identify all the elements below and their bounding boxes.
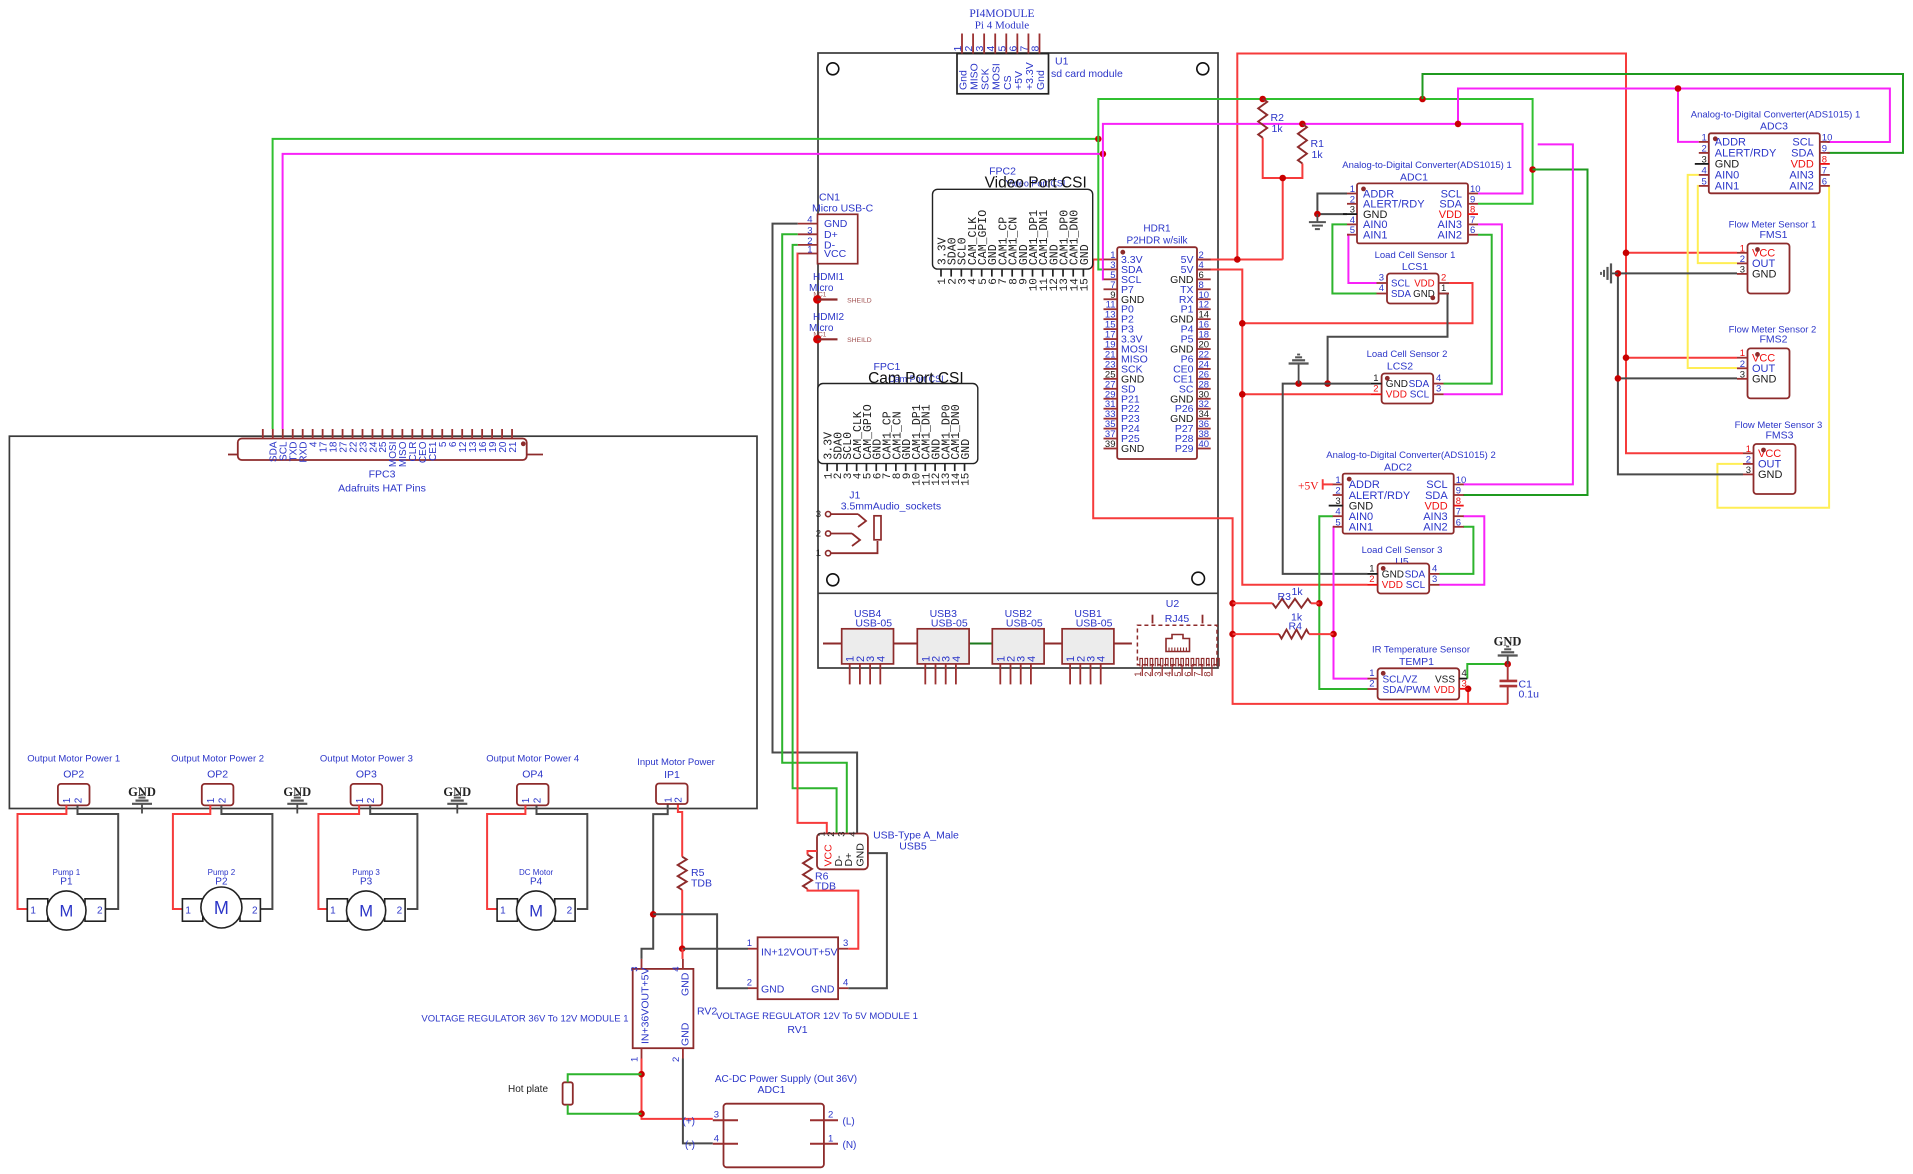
svg-text:sd card module: sd card module xyxy=(1051,68,1123,80)
junction 5V rail xyxy=(1234,256,1241,263)
header OP2 Output Motor Power 2 xyxy=(171,754,264,806)
svg-text:LCS2: LCS2 xyxy=(1387,361,1413,373)
svg-text:GND: GND xyxy=(1752,269,1777,281)
svg-text:2: 2 xyxy=(1702,143,1707,154)
svg-text:2: 2 xyxy=(217,797,228,803)
junction ADC1 ground xyxy=(1314,211,1321,218)
svg-text:4: 4 xyxy=(671,967,682,972)
junction R2 top on SDA rail xyxy=(1259,96,1266,103)
svg-text:8: 8 xyxy=(1456,496,1461,507)
svg-text:HDMI1: HDMI1 xyxy=(813,272,845,283)
wire OP1 pin2 to pump1 motor xyxy=(78,805,119,909)
wire ADC2 AIN1 to TEMP1 SCL/VZ xyxy=(1333,527,1368,679)
svg-text:2: 2 xyxy=(1335,486,1340,497)
wire ADC2 AIN2 to U5 SDA xyxy=(1440,527,1474,574)
wire hot plate bottom to 36V return xyxy=(568,1105,642,1114)
svg-text:4: 4 xyxy=(843,978,848,989)
junction FMS2 VCC xyxy=(1623,354,1630,361)
wire RV2 pin2 to AC-DC (-) xyxy=(683,1059,713,1144)
svg-text:3: 3 xyxy=(1436,384,1441,395)
ground symbol under ADC1 xyxy=(1316,214,1318,222)
junction ground symbol tap xyxy=(1295,380,1302,387)
svg-text:(+): (+) xyxy=(683,1117,696,1128)
board USB/ethernet strip divider xyxy=(818,592,1218,594)
svg-text:2: 2 xyxy=(97,906,103,917)
wire LCS1 GND loop to LCS2 GND xyxy=(1328,294,1448,384)
svg-text:VDD: VDD xyxy=(1382,580,1403,591)
wire ADC2 AIN3 to U5 SCL xyxy=(1440,516,1485,585)
svg-text:4: 4 xyxy=(1096,656,1108,662)
connector USB1 USB-05 xyxy=(1062,608,1114,684)
wire CN1 D- to USB5 D- xyxy=(793,245,837,834)
svg-text:4: 4 xyxy=(1335,507,1340,518)
svg-text:1: 1 xyxy=(330,906,336,917)
svg-text:USB5: USB5 xyxy=(899,841,927,853)
wire ADC2 SCL loop (dangling end) xyxy=(1463,144,1573,484)
svg-text:Analog-to-Digital Converter(AD: Analog-to-Digital Converter(ADS1015) 1 xyxy=(1691,110,1861,121)
svg-text:4: 4 xyxy=(1432,563,1437,574)
svg-text:4: 4 xyxy=(951,656,963,662)
svg-text:0.1u: 0.1u xyxy=(1519,689,1540,701)
svg-text:SHEILD: SHEILD xyxy=(847,337,872,344)
junction SDA split to ADC3 xyxy=(1419,96,1426,103)
svg-text:Analog-to-Digital Converter(AD: Analog-to-Digital Converter(ADS1015) 1 xyxy=(1342,160,1512,171)
svg-text:RJ45: RJ45 xyxy=(1165,613,1190,625)
svg-text:Load Cell Sensor 3: Load Cell Sensor 3 xyxy=(1362,545,1443,556)
svg-text:3: 3 xyxy=(816,509,821,520)
wire CN1 D+ to USB5 D+ xyxy=(782,234,847,833)
junction R rail xyxy=(1279,175,1286,182)
wire ADC2 SDA loop xyxy=(1463,170,1588,496)
svg-text:Gnd: Gnd xyxy=(1035,70,1047,90)
svg-text:40: 40 xyxy=(1199,439,1210,450)
wire FMS2 VCC branch xyxy=(1626,357,1737,359)
wire FMS1 VCC branch xyxy=(1626,252,1737,254)
junction SCL at HDR1 riser xyxy=(1100,151,1107,158)
wire hot plate top to 36V xyxy=(568,1074,642,1082)
svg-text:3: 3 xyxy=(836,832,847,837)
connector FPC1 Cam Port CSI xyxy=(818,361,978,486)
header OP2 Output Motor Power 1 xyxy=(27,754,120,806)
svg-text:(-): (-) xyxy=(685,1140,695,1151)
wire IP1 pin1 to RV2 pin3 (36V input return) xyxy=(642,804,668,959)
svg-text:4: 4 xyxy=(1462,668,1467,679)
svg-text:8: 8 xyxy=(1822,154,1827,165)
svg-text:1: 1 xyxy=(1335,475,1340,486)
svg-text:Pi 4 Module: Pi 4 Module xyxy=(975,20,1030,32)
svg-text:2: 2 xyxy=(567,906,573,917)
connector HDMI2 Micro xyxy=(809,312,872,344)
wire LCS2 GND rail to U5 GND xyxy=(1283,384,1371,574)
svg-text:OP4: OP4 xyxy=(522,769,543,781)
connector USB4 USB-05 xyxy=(842,608,894,684)
svg-text:2: 2 xyxy=(671,1057,682,1062)
sensor TEMP1 IR Temperature Sensor xyxy=(1368,645,1471,700)
svg-text:SCL: SCL xyxy=(1406,580,1426,591)
motor/HAT harness enclosure rectangle xyxy=(9,436,757,808)
junction LCS GND xyxy=(1324,380,1331,387)
svg-text:4: 4 xyxy=(1436,373,1441,384)
svg-text:VCC: VCC xyxy=(824,248,847,260)
svg-text:1: 1 xyxy=(747,938,752,949)
svg-text:39: 39 xyxy=(1105,439,1116,450)
motor P3 Pump 3 xyxy=(327,868,405,930)
svg-text:M: M xyxy=(359,902,373,920)
svg-text:ADC1: ADC1 xyxy=(757,1084,785,1096)
svg-text:P3: P3 xyxy=(360,877,373,888)
svg-text:(L): (L) xyxy=(843,1117,855,1128)
svg-text:SDA/PWM: SDA/PWM xyxy=(1383,685,1431,696)
svg-text:Micro USB-C: Micro USB-C xyxy=(812,203,874,215)
voltage regulator RV1 12V to 5V xyxy=(716,937,918,1036)
svg-text:9: 9 xyxy=(1456,486,1461,497)
resistor R6 TDB xyxy=(803,851,858,949)
svg-text:VDD: VDD xyxy=(1414,279,1434,290)
wire R2/R1 bottom rail to 5V xyxy=(1263,138,1303,178)
svg-text:SCL: SCL xyxy=(1391,279,1410,290)
svg-text:1: 1 xyxy=(1441,283,1446,294)
connector USB5 USB-Type A_Male xyxy=(816,830,959,870)
wire ADC3 AIN0 to FMS2 OUT (yellow) xyxy=(1688,175,1737,368)
svg-text:3: 3 xyxy=(1740,264,1745,275)
wire ADC1 ADDR+GND to ground xyxy=(1317,194,1347,215)
svg-text:OP3: OP3 xyxy=(356,769,377,781)
svg-text:GND: GND xyxy=(680,1022,692,1046)
svg-text:6: 6 xyxy=(1470,225,1475,236)
svg-text:FMS1: FMS1 xyxy=(1759,229,1787,241)
mounting hole bottom-left xyxy=(827,574,839,586)
svg-text:2: 2 xyxy=(532,797,543,803)
svg-text:2: 2 xyxy=(1441,273,1446,284)
svg-text:4: 4 xyxy=(807,215,812,226)
svg-text:8: 8 xyxy=(1203,672,1214,677)
junction hot plate bottom xyxy=(638,1110,645,1117)
GND symbol after OP1 xyxy=(128,785,156,814)
svg-text:1: 1 xyxy=(1369,563,1374,574)
svg-text:10: 10 xyxy=(1456,475,1467,486)
svg-text:RV2: RV2 xyxy=(697,1006,717,1018)
junction SDA at HDR1 riser xyxy=(1095,136,1102,143)
svg-text:RV1: RV1 xyxy=(787,1024,807,1036)
mounting hole top-right xyxy=(1197,63,1209,75)
svg-text:1: 1 xyxy=(206,797,217,803)
svg-text:2: 2 xyxy=(1740,254,1745,265)
wire SCL net: FPC3 SCL up and across top of board xyxy=(283,154,1103,429)
svg-text:2: 2 xyxy=(828,1110,833,1121)
svg-text:Output Motor Power 3: Output Motor Power 3 xyxy=(320,754,413,765)
svg-text:15: 15 xyxy=(1079,278,1091,291)
svg-text:M: M xyxy=(60,902,74,920)
svg-text:SHEILD: SHEILD xyxy=(847,297,872,304)
svg-text:2: 2 xyxy=(1746,454,1751,465)
svg-text:1k: 1k xyxy=(1292,586,1304,598)
svg-text:GND: GND xyxy=(1121,443,1145,455)
resistor R5 TDB xyxy=(678,804,712,949)
wire OP1 pin1 to pump1 motor xyxy=(18,805,67,909)
svg-text:3: 3 xyxy=(1335,496,1340,507)
svg-text:FMS2: FMS2 xyxy=(1759,334,1787,346)
svg-text:3: 3 xyxy=(807,225,812,236)
connector FPC2 Video Port CSI xyxy=(933,166,1093,292)
svg-text:OP2: OP2 xyxy=(207,769,228,781)
junction IP1/RV1 gnd split xyxy=(650,911,657,918)
wire OP3 pin1 to pump3 motor xyxy=(318,805,359,909)
voltage regulator RV2 36V to 12V xyxy=(421,959,717,1062)
svg-text:AIN1: AIN1 xyxy=(1349,522,1373,534)
svg-text:1: 1 xyxy=(1702,132,1707,143)
svg-text:2: 2 xyxy=(674,797,685,803)
svg-text:P4: P4 xyxy=(530,877,543,888)
wire LCS1 VDD loop xyxy=(1242,283,1472,323)
40-pin header HDR1 P2HDR w/silk xyxy=(1104,224,1211,460)
junction R4 to SCL/VZ xyxy=(1330,631,1337,638)
svg-text:ADC3: ADC3 xyxy=(1760,121,1788,133)
svg-text:1k: 1k xyxy=(1272,123,1284,135)
svg-text:ADC2: ADC2 xyxy=(1384,462,1412,474)
svg-text:GND: GND xyxy=(811,984,835,996)
module U1 sd card (Pi4 SPI header) xyxy=(952,8,1123,94)
svg-text:M: M xyxy=(214,898,229,918)
wire ADC1 AIN2 to LCS2 SDA xyxy=(1444,235,1492,384)
svg-text:P29: P29 xyxy=(1175,443,1194,455)
GND symbol after OP3 xyxy=(443,785,471,814)
wire R5 node to RV1 pin1 xyxy=(683,948,748,950)
Raspberry Pi 4 board outline xyxy=(818,53,1218,668)
svg-text:P1: P1 xyxy=(60,877,73,888)
svg-text:VOLTAGE REGULATOR 36V To 12V M: VOLTAGE REGULATOR 36V To 12V MODULE 1 xyxy=(421,1014,628,1025)
svg-text:15: 15 xyxy=(961,473,973,486)
connector USB2 USB-05 xyxy=(992,608,1044,684)
wire rail riser down to HDR1 5V xyxy=(1282,178,1284,259)
junction ADC3 ADDR tap xyxy=(1675,85,1682,92)
motor P4 DC Motor xyxy=(497,868,575,930)
op-amp/ADC U ADC2 ADS1015 #2 xyxy=(1326,450,1496,534)
svg-text:SDA: SDA xyxy=(1391,289,1411,300)
mounting hole top-left xyxy=(827,63,839,75)
svg-text:GND: GND xyxy=(1079,244,1092,265)
sensor LCS2 Load Cell Sensor 2 xyxy=(1367,349,1448,404)
junction R4 tap on 3.3V xyxy=(1229,631,1236,638)
svg-text:4: 4 xyxy=(875,656,887,662)
resistor R1 1k xyxy=(1298,124,1324,164)
junction LCS2 VDD tap xyxy=(1239,391,1246,398)
svg-text:FPC3: FPC3 xyxy=(369,469,396,481)
svg-text:1: 1 xyxy=(500,906,506,917)
svg-text:U2: U2 xyxy=(1166,598,1180,610)
svg-text:4: 4 xyxy=(848,832,859,837)
svg-text:USB-05: USB-05 xyxy=(1076,618,1113,630)
svg-text:2: 2 xyxy=(816,529,821,540)
svg-text:1: 1 xyxy=(630,1057,641,1062)
junction hot plate top xyxy=(638,1071,645,1078)
svg-text:10: 10 xyxy=(1822,132,1833,143)
wire ADC3 ADDR to SCL rail xyxy=(1678,89,1699,142)
wire CN1 GND to USB5 GND xyxy=(773,224,858,834)
connector USB3 USB-05 xyxy=(917,608,969,684)
svg-text:IN+36VOUT+5V: IN+36VOUT+5V xyxy=(640,968,652,1044)
svg-text:1: 1 xyxy=(1373,373,1378,384)
svg-text:IP1: IP1 xyxy=(664,769,680,781)
wire ADC1 AIN0 to LCS1 SDA xyxy=(1332,224,1376,293)
svg-text:2: 2 xyxy=(1740,359,1745,370)
wire SDA riser to HDR1 pin3 and top rail xyxy=(1098,99,1532,269)
svg-text:1: 1 xyxy=(355,797,366,803)
svg-text:Adafruits HAT Pins: Adafruits HAT Pins xyxy=(338,483,426,495)
svg-text:SDA: SDA xyxy=(1409,379,1430,390)
wire OP2 pin1 to pump2 motor xyxy=(173,805,210,909)
svg-text:1: 1 xyxy=(828,1133,833,1144)
junction LCS1 VDD tap xyxy=(1239,320,1246,327)
svg-text:VOLTAGE REGULATOR 12V To 5V MO: VOLTAGE REGULATOR 12V To 5V MODULE 1 xyxy=(716,1011,918,1022)
svg-text:8: 8 xyxy=(1029,46,1041,52)
svg-text:7: 7 xyxy=(1456,507,1461,518)
svg-text:Output Motor Power 2: Output Motor Power 2 xyxy=(171,754,264,765)
svg-text:ADC1: ADC1 xyxy=(1400,172,1428,184)
svg-text:1: 1 xyxy=(30,906,36,917)
svg-text:Analog-to-Digital Converter(AD: Analog-to-Digital Converter(ADS1015) 2 xyxy=(1326,450,1496,461)
sensor LCS1 Load Cell Sensor 1 xyxy=(1375,250,1456,304)
svg-text:1: 1 xyxy=(62,797,73,803)
svg-text:2: 2 xyxy=(1369,679,1374,690)
svg-text:21: 21 xyxy=(508,441,519,453)
junction R1 top on SCL rail xyxy=(1299,121,1306,128)
svg-text:P2: P2 xyxy=(215,877,228,888)
module U2 RJ45 ethernet xyxy=(1133,598,1219,677)
svg-text:4: 4 xyxy=(1702,165,1707,176)
svg-text:OP2: OP2 xyxy=(63,769,84,781)
svg-text:1: 1 xyxy=(521,797,532,803)
svg-text:AIN2: AIN2 xyxy=(1438,230,1462,242)
svg-text:GND: GND xyxy=(1386,379,1408,390)
junction SDA split to ADC2 xyxy=(1529,166,1536,173)
wire SCL upper rail to ADC3 xyxy=(1458,89,1890,143)
svg-text:HDMI2: HDMI2 xyxy=(813,312,845,323)
wire LCS2 VDD branch xyxy=(1242,393,1371,395)
svg-text:Output Motor Power 1: Output Motor Power 1 xyxy=(27,754,120,765)
wire ADC1 AIN1 to LCS1 SCL xyxy=(1347,235,1377,283)
resistor R4 1k xyxy=(1233,612,1334,639)
wire USB inter-connector stubs xyxy=(823,643,842,645)
wire ADC2 AIN0 to TEMP1 SDA/PWM xyxy=(1319,516,1367,689)
svg-text:3.5mmAudio_sockets: 3.5mmAudio_sockets xyxy=(841,501,941,513)
sensor U5 Load Cell Sensor 3 xyxy=(1362,545,1443,594)
svg-text:U1: U1 xyxy=(1055,56,1069,68)
wire SDA top rail to ADC3 SDA xyxy=(1423,74,1904,153)
wire USB5 GND to RV1 pin4 xyxy=(848,853,887,988)
svg-text:5: 5 xyxy=(1702,176,1707,187)
ground symbol above C1 xyxy=(1507,656,1509,665)
svg-text:AIN1: AIN1 xyxy=(1363,230,1387,242)
svg-text:LCS1: LCS1 xyxy=(1402,261,1428,273)
svg-text:9: 9 xyxy=(1822,143,1827,154)
svg-text:P2HDR w/silk: P2HDR w/silk xyxy=(1126,236,1188,247)
svg-text:TEMP1: TEMP1 xyxy=(1399,656,1434,668)
svg-text:1: 1 xyxy=(807,245,812,256)
svg-text:FMS3: FMS3 xyxy=(1765,429,1793,441)
svg-text:2: 2 xyxy=(397,906,403,917)
svg-text:3: 3 xyxy=(1379,273,1384,284)
sensor FMS2 Flow Meter Sensor 2 xyxy=(1729,324,1817,398)
junction FMS2 GND xyxy=(1615,375,1622,382)
svg-text:GND: GND xyxy=(855,843,867,867)
wire OP3 pin2 to pump3 motor xyxy=(370,805,417,909)
wire ADC3 AIN1 to FMS1 OUT (yellow) xyxy=(1698,186,1737,263)
svg-text:PI4MODULE: PI4MODULE xyxy=(969,8,1034,20)
svg-text:5: 5 xyxy=(1350,225,1355,236)
wire ADC3 AIN2 to FMS3 OUT (yellow) xyxy=(1717,186,1829,508)
junction SCL upper riser xyxy=(1455,121,1462,128)
svg-text:R4: R4 xyxy=(1289,621,1303,633)
svg-text:1: 1 xyxy=(1740,348,1745,359)
svg-text:3: 3 xyxy=(714,1110,719,1121)
wire SDA net: FPC3 SDA up and across top of board xyxy=(273,139,1099,429)
svg-text:4: 4 xyxy=(714,1133,719,1144)
svg-text:1: 1 xyxy=(1369,668,1374,679)
wire OP4 pin2 to DC motor xyxy=(537,805,588,909)
junction FMS1 GND xyxy=(1615,270,1622,277)
svg-text:1: 1 xyxy=(185,906,191,917)
svg-text:GND: GND xyxy=(1752,374,1777,386)
svg-text:2: 2 xyxy=(73,797,84,803)
wire 5V net: HDR1 pin4 down to U5 VDD xyxy=(1197,269,1368,584)
wire R5 node into RV2 pin4 xyxy=(682,949,684,959)
svg-text:Output Motor Power 4: Output Motor Power 4 xyxy=(486,754,579,765)
capacitor C1 0.1u xyxy=(1500,664,1540,704)
wire RV2 pin1 to AC-DC (+) xyxy=(642,1059,713,1119)
svg-text:TDB: TDB xyxy=(815,881,836,893)
GND symbol after OP2 xyxy=(283,785,311,814)
svg-text:USB-05: USB-05 xyxy=(855,618,892,630)
svg-text:GND: GND xyxy=(761,984,785,996)
svg-text:3: 3 xyxy=(1462,679,1467,690)
svg-text:TDB: TDB xyxy=(691,878,712,890)
svg-text:D+: D+ xyxy=(843,853,855,867)
resistor R2 1k xyxy=(1258,99,1284,138)
op-amp/ADC U ADC1 ADS1015 #1 xyxy=(1342,160,1512,243)
svg-text:VDD: VDD xyxy=(1386,390,1407,401)
motor P2 Pump 2 xyxy=(182,868,260,928)
wire 5V net: HDR1 pin2 to R1/R2 rail riser xyxy=(1197,258,1283,260)
wire CN1 VCC to USB5 VCC xyxy=(798,254,827,834)
svg-text:AIN1: AIN1 xyxy=(1715,181,1739,193)
junction TEMP1 VDD xyxy=(1465,686,1472,693)
hot plate element xyxy=(508,1082,573,1104)
svg-text:M: M xyxy=(529,902,543,920)
svg-text:3: 3 xyxy=(1432,574,1437,585)
svg-text:AC-DC Power Supply (Out 36V): AC-DC Power Supply (Out 36V) xyxy=(715,1074,857,1085)
wire IP1 gnd to RV1 pin2 xyxy=(653,914,748,988)
header IP1 Input Motor Power xyxy=(637,757,715,804)
op-amp/ADC U ADC3 ADS1015 #3 xyxy=(1691,110,1861,194)
junction FMS1 VCC xyxy=(1623,250,1630,257)
ground symbol sideways FMS chain xyxy=(1611,272,1618,274)
svg-text:3: 3 xyxy=(1702,154,1707,165)
svg-text:AIN2: AIN2 xyxy=(1423,522,1447,534)
wire OP4 pin1 to DC motor xyxy=(487,805,525,909)
svg-text:5: 5 xyxy=(1335,517,1340,528)
svg-text:3: 3 xyxy=(1740,369,1745,380)
wire TEMP1 VDD to C1 bottom xyxy=(1467,689,1469,704)
wire TEMP1 VSS to C1 top / ground xyxy=(1467,664,1507,679)
svg-text:4: 4 xyxy=(1026,656,1038,662)
wire 3.3V net: HDR1 pin1 down and across to TEMP1/pullups xyxy=(1093,259,1508,703)
connector HDMI1 Micro xyxy=(809,272,872,304)
svg-text:HDR1: HDR1 xyxy=(1143,224,1171,235)
svg-text:SDA: SDA xyxy=(1405,570,1426,581)
junction R5/RV1 IN node xyxy=(679,945,686,952)
svg-text:AIN2: AIN2 xyxy=(1789,181,1813,193)
wire +5V lead to ADC2 ADDR xyxy=(1323,483,1333,485)
